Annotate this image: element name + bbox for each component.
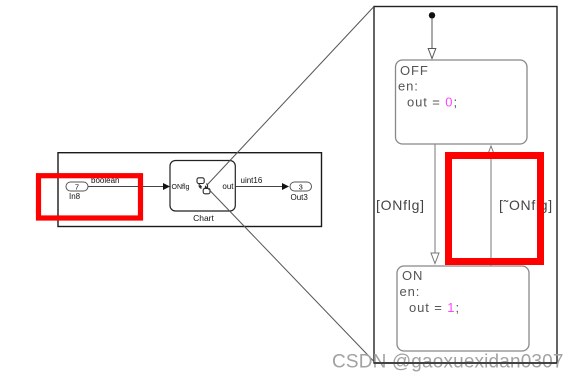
zoom line upper	[208, 7, 375, 185]
input port In8	[66, 182, 88, 201]
state ON	[397, 266, 529, 351]
window bottom edge overlay	[374, 362, 557, 364]
state OFF	[396, 60, 528, 144]
wire uint16	[235, 176, 289, 190]
svg-text:OFF: OFF	[400, 63, 429, 78]
wire boolean	[88, 176, 170, 190]
svg-text:CSDN @gaoxuexidan0307: CSDN @gaoxuexidan0307	[332, 352, 564, 373]
svg-text:uint16: uint16	[241, 176, 263, 185]
svg-text:ONflg: ONflg	[172, 184, 190, 191]
output port Out3	[290, 182, 312, 202]
stateflow icon	[197, 178, 210, 194]
transition ON to OFF	[487, 146, 553, 266]
svg-text:In8: In8	[69, 192, 81, 201]
subsystem box	[58, 153, 322, 227]
annotation red box 2	[449, 156, 541, 262]
transition OFF to ON	[376, 145, 439, 264]
svg-text:Out3: Out3	[291, 193, 309, 202]
chart block	[170, 161, 235, 224]
svg-text:out = 0;: out = 0;	[407, 94, 458, 109]
svg-text:[ONflg]: [ONflg]	[376, 197, 425, 213]
svg-text:Chart: Chart	[193, 213, 214, 223]
svg-text:out: out	[222, 182, 234, 191]
initial node	[429, 12, 435, 18]
zoom line lower	[208, 189, 374, 362]
annotation red box 1	[39, 176, 141, 218]
stateflow window frame	[374, 7, 557, 364]
svg-text:[˜ONflg]: [˜ONflg]	[499, 197, 553, 213]
svg-text:ON: ON	[402, 268, 423, 283]
svg-text:en:: en:	[398, 79, 419, 94]
svg-text:en:: en:	[400, 284, 421, 299]
svg-text:7: 7	[75, 183, 79, 192]
initial transition	[428, 18, 436, 59]
svg-text:out = 1;: out = 1;	[409, 300, 460, 315]
svg-text:3: 3	[299, 183, 303, 192]
